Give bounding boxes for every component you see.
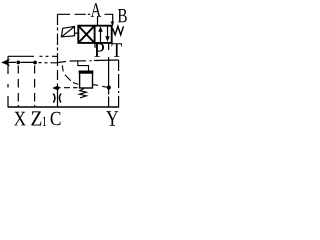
P port stub below valve xyxy=(94,43,96,48)
manifold block outline: left upper edge / C port chain vertical x57 xyxy=(57,14,59,107)
drain line dashed right of valve to junction xyxy=(93,85,107,88)
label P xyxy=(94,43,104,57)
junction dot on C line at drain xyxy=(56,86,60,90)
drain line dashed left of valve xyxy=(59,87,78,89)
pressure pilot valve: top hat bar xyxy=(79,71,94,74)
return spring W right of valve xyxy=(112,26,123,35)
label Z xyxy=(31,111,41,125)
pressure pilot valve: spring zigzag below xyxy=(80,89,87,98)
manifold block outline: bottom edge y107 (solid) xyxy=(8,106,119,108)
pilot tap dashed curve from pilot line to valve left side xyxy=(62,65,78,84)
label A xyxy=(91,3,101,16)
solenoid box with diagonal xyxy=(61,26,78,36)
arrow up (P to A) in right square xyxy=(98,26,102,42)
crossed position X in left square xyxy=(79,27,94,43)
manifold block outline: right edge x118.6 (chain) xyxy=(118,60,120,108)
T/Y line lower part (chain) to bottom edge xyxy=(108,88,110,107)
label T xyxy=(112,43,122,57)
label C xyxy=(51,112,61,125)
T port line down from valve xyxy=(108,43,110,88)
label B xyxy=(118,9,127,22)
orifice restrictor on C line xyxy=(53,94,61,103)
manifold block outline: top edge (chain) xyxy=(58,14,113,20)
drain arrowhead pointing left at C line xyxy=(52,86,58,91)
solenoid stub to valve xyxy=(75,32,79,34)
X port line (dashed vertical) xyxy=(17,66,19,107)
junction dot on pilot line at X port xyxy=(16,61,20,65)
pressure pilot valve: body xyxy=(80,73,93,88)
pilot line (chain) horizontal across block xyxy=(3,60,119,63)
Z1 port line (dashed vertical) xyxy=(34,66,36,107)
A port line xyxy=(97,17,99,26)
label X xyxy=(14,112,26,126)
valve centre divider xyxy=(94,26,96,43)
junction dot pilot drain on T/Y line xyxy=(107,85,111,89)
junction dot on pilot line at Z1 port xyxy=(33,61,37,65)
label 1 xyxy=(43,117,46,126)
pressure pilot valve: connector from pilot line (staircase) xyxy=(78,62,89,71)
manifold block outline: left edge x8 (chain) xyxy=(7,56,9,107)
pilot line left arrowhead (points left, exits block) xyxy=(1,59,10,67)
directional valve body xyxy=(78,26,111,43)
label Y xyxy=(106,111,118,126)
manifold block outline: left section top edge y56 (chain) xyxy=(8,55,58,57)
arrow down (B to T) in right square xyxy=(105,27,109,42)
B port line with down arrowhead at valve top xyxy=(111,21,115,27)
